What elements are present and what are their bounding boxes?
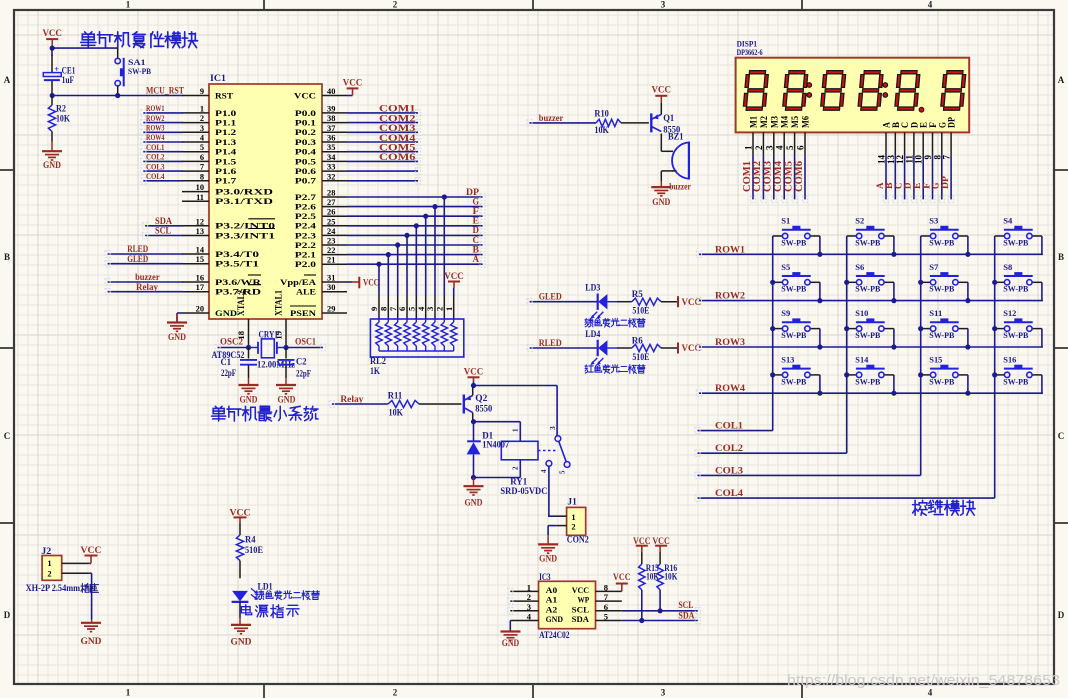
svg-text:BZ1: BZ1 <box>668 131 684 141</box>
svg-text:3: 3 <box>764 145 774 150</box>
net label ROW1 <box>715 244 746 254</box>
pin 4 M4 <box>775 116 790 156</box>
power VCC (GLED) <box>678 296 701 308</box>
wire/net label SDA (P3.2) <box>145 216 183 226</box>
svg-text:P2.1: P2.1 <box>295 251 316 260</box>
switch S1 SW-PB <box>773 216 820 248</box>
switch S3 SW-PB <box>921 216 968 248</box>
svg-text:25: 25 <box>327 217 335 226</box>
svg-text:ROW2: ROW2 <box>146 113 165 123</box>
svg-text:Relay: Relay <box>340 394 364 404</box>
svg-text:2: 2 <box>527 592 531 602</box>
svg-text:S15: S15 <box>929 354 942 364</box>
svg-text:P2.3: P2.3 <box>295 231 316 240</box>
svg-text:P0.1: P0.1 <box>295 119 316 128</box>
svg-text:buzzer: buzzer <box>669 182 691 192</box>
7-segment digit 1 <box>745 72 767 108</box>
svg-text:A: A <box>473 255 480 265</box>
power VCC (RL2 common) <box>444 272 464 319</box>
svg-text:P3.3/INT1: P3.3/INT1 <box>215 231 275 240</box>
wire/net label COM1 (display) <box>742 155 753 199</box>
junction S8/COL4 <box>992 280 997 285</box>
junction DP column <box>442 194 447 199</box>
wire/net label COM3 (P0.2) <box>347 124 418 134</box>
svg-text:COL4: COL4 <box>146 171 165 181</box>
svg-text:F: F <box>473 207 480 217</box>
svg-text:P1.7: P1.7 <box>215 177 236 186</box>
title 电源指示 <box>241 605 299 618</box>
switch S15 SW-PB <box>921 354 968 386</box>
wire/net label COM3 (display) <box>763 155 774 199</box>
pin 34 P0.5 <box>295 153 347 166</box>
svg-text:10K: 10K <box>594 125 609 135</box>
svg-text:SW-PB: SW-PB <box>929 376 954 386</box>
switch S10 SW-PB <box>847 308 894 340</box>
svg-text:VCC: VCC <box>81 546 102 556</box>
svg-text:36: 36 <box>327 134 335 143</box>
pin 2 P1.1 <box>182 114 236 127</box>
wire/net label GLED <box>530 292 598 302</box>
svg-text:AT24C02: AT24C02 <box>539 630 570 640</box>
pin 33 P0.6 <box>295 163 347 176</box>
svg-text:C: C <box>1058 431 1065 441</box>
svg-text:510E: 510E <box>632 306 649 316</box>
wire/net label B (display) <box>885 155 895 199</box>
svg-text:G: G <box>473 197 480 207</box>
svg-text:P2.7: P2.7 <box>295 193 316 202</box>
wire F to RL2 pin 4 <box>416 216 426 319</box>
svg-text:COL2: COL2 <box>146 152 165 162</box>
svg-text:B: B <box>1058 252 1064 262</box>
connector J2 XH-2P <box>41 546 89 580</box>
pin 6 SCL (IC3) <box>572 602 622 615</box>
svg-text:A1: A1 <box>546 595 558 605</box>
switch S5 SW-PB <box>773 262 820 294</box>
svg-text:12: 12 <box>196 217 204 226</box>
svg-text:COM2: COM2 <box>752 161 763 192</box>
svg-text:23: 23 <box>327 237 335 246</box>
pin 14 P3.4/T0 <box>182 246 259 259</box>
svg-text:P3.6/WR: P3.6/WR <box>215 278 262 287</box>
pin 2 M2 <box>754 116 769 156</box>
svg-text:SW-PB: SW-PB <box>855 330 880 340</box>
svg-text:10K: 10K <box>389 407 404 417</box>
svg-text:A2: A2 <box>546 604 558 614</box>
junction D1/coil return <box>471 475 476 480</box>
ground GND (pin 20) <box>167 313 187 343</box>
svg-text:10K: 10K <box>664 572 677 582</box>
pin 8 G (display) <box>932 122 947 160</box>
junction S13/COL1 <box>770 372 775 377</box>
svg-text:P2.0: P2.0 <box>295 260 316 269</box>
svg-text:GND: GND <box>278 396 296 406</box>
svg-text:VCC: VCC <box>572 585 589 595</box>
svg-text:35: 35 <box>327 143 335 152</box>
svg-text:M2: M2 <box>759 116 769 128</box>
transistor Q1 8550 <box>651 113 680 135</box>
junction S10/COL2 <box>844 326 849 331</box>
svg-text:P3.5/T1: P3.5/T1 <box>215 260 259 269</box>
pin 3 P1.2 <box>182 124 236 137</box>
pin 38 P0.1 <box>295 114 347 127</box>
svg-text:SDA: SDA <box>572 614 590 624</box>
wire/net label COM6 (display) <box>794 155 805 199</box>
pin 32 P0.7 <box>295 172 347 185</box>
wire COL3 vertical <box>920 236 922 475</box>
svg-text:SW-PB: SW-PB <box>781 284 806 294</box>
svg-text:VCC: VCC <box>363 278 379 288</box>
svg-text:VCC: VCC <box>343 78 363 88</box>
svg-text:2: 2 <box>512 466 520 470</box>
wire/net label OSC1 <box>286 336 323 347</box>
wire/net label B (P2.1) <box>347 245 483 255</box>
wire/net label G (P2.6) <box>347 197 483 207</box>
svg-text:5: 5 <box>559 470 567 474</box>
svg-text:P1.5: P1.5 <box>215 157 236 166</box>
wire S1 to ROW1 <box>819 236 821 254</box>
svg-text:COM3: COM3 <box>379 124 416 134</box>
pin 1 P1.0 <box>182 104 236 117</box>
svg-text:13: 13 <box>196 227 204 236</box>
svg-text:DP: DP <box>466 188 479 198</box>
wire/net label RLED <box>530 338 598 348</box>
wire R15 to SDA <box>641 590 643 621</box>
junction OSC2 <box>246 345 251 350</box>
svg-text:B: B <box>473 245 480 255</box>
junction S14/ROW4 <box>891 391 896 396</box>
svg-text:SDA: SDA <box>678 610 694 620</box>
pin 26 P2.5 <box>295 208 347 221</box>
display module DISP1 DP3662-6 body <box>736 38 970 132</box>
relay moving contact <box>538 441 566 462</box>
svg-text:P1.4: P1.4 <box>215 148 236 157</box>
svg-text:S3: S3 <box>929 216 938 226</box>
junction S7/ROW2 <box>965 298 970 303</box>
wire A to RL2 pin 9 <box>369 264 379 319</box>
svg-text:10K: 10K <box>56 114 70 124</box>
pin 6 M6 <box>796 116 811 156</box>
svg-text:SW-PB: SW-PB <box>781 330 806 340</box>
wire R6 to VCC <box>661 347 678 349</box>
wire S7 to ROW2 <box>967 282 969 300</box>
svg-text:A0: A0 <box>546 585 558 595</box>
svg-text:1uF: 1uF <box>62 75 75 85</box>
junction collector/D1/coil <box>471 419 476 424</box>
svg-text:GND: GND <box>539 554 557 564</box>
svg-text:COL4: COL4 <box>715 488 744 498</box>
annotation 绿色发光二极管 (LD1) <box>255 591 319 600</box>
wire collector to coil pin 1 <box>474 422 521 442</box>
svg-text:SW-PB: SW-PB <box>1003 237 1028 247</box>
svg-text:XH-2P 2.54mm: XH-2P 2.54mm <box>26 583 81 593</box>
svg-text:1: 1 <box>512 428 520 432</box>
svg-text:COM5: COM5 <box>379 144 416 154</box>
wire COL2 vertical <box>846 236 848 453</box>
wire/net label C (display) <box>894 155 904 199</box>
svg-text:SW-PB: SW-PB <box>1003 376 1028 386</box>
svg-text:S2: S2 <box>855 216 864 226</box>
junction S15/COL3 <box>918 372 923 377</box>
svg-text:P3.4/T0: P3.4/T0 <box>215 250 259 259</box>
svg-text:SW-PB: SW-PB <box>855 237 880 247</box>
wire/net label OSC2 <box>218 336 249 347</box>
wire S14 to ROW4 <box>893 375 895 393</box>
wire DP to RL2 pin 2 <box>435 197 445 319</box>
svg-text:P0.4: P0.4 <box>295 148 316 157</box>
svg-text:SW-PB: SW-PB <box>929 330 954 340</box>
power VCC (reset module) <box>42 29 62 48</box>
pin 20 GND <box>182 305 237 318</box>
wire/net label ROW4 (P1 port) <box>143 132 183 142</box>
7-segment digit 4 <box>860 72 882 108</box>
svg-text:https://blog.csdn.net/weixin_5: https://blog.csdn.net/weixin_54878653 <box>787 673 1060 689</box>
svg-text:C: C <box>4 431 11 441</box>
svg-text:P1.1: P1.1 <box>215 119 236 128</box>
wire/net label SDA (I2C) <box>622 610 698 620</box>
pin 27 P2.6 <box>295 198 347 211</box>
svg-text:GND: GND <box>231 638 252 648</box>
wire S11 to ROW3 <box>967 329 969 347</box>
svg-text:1: 1 <box>126 688 131 698</box>
switch S14 SW-PB <box>847 354 894 386</box>
junction SA1/RST <box>115 93 120 98</box>
resistor network RL2 1K <box>370 319 463 357</box>
net label COL3 <box>715 465 744 475</box>
svg-text:22: 22 <box>327 246 335 255</box>
watermark <box>787 673 1060 689</box>
net label COL1 <box>715 421 744 431</box>
svg-text:38: 38 <box>327 114 335 123</box>
label XH-2P 2.54mm插座 <box>26 583 99 593</box>
wire/net label buzzer (to Q1) <box>529 113 596 123</box>
svg-text:6: 6 <box>796 145 806 150</box>
7-segment digit 3 <box>822 72 844 108</box>
pin 28 P2.7 <box>295 189 347 202</box>
svg-text:COL3: COL3 <box>715 465 744 475</box>
wire E to RL2 pin 5 <box>407 226 417 319</box>
svg-text:DP: DP <box>947 117 957 128</box>
svg-text:1: 1 <box>744 145 754 150</box>
svg-text:2: 2 <box>393 688 398 698</box>
svg-text:LD1: LD1 <box>258 581 273 591</box>
wire P0.6 stub <box>347 170 418 172</box>
svg-text:COM4: COM4 <box>379 134 416 144</box>
svg-text:510E: 510E <box>632 352 649 362</box>
svg-text:SW-PB: SW-PB <box>128 66 151 76</box>
junction S6/ROW2 <box>891 298 896 303</box>
pin 14 A (display) <box>877 122 892 164</box>
wire MCU_RST <box>52 95 183 97</box>
svg-text:GND: GND <box>81 637 102 647</box>
pin 21 P2.0 <box>295 256 347 269</box>
svg-text:J2: J2 <box>41 546 52 556</box>
wire VCC to SA1 <box>52 48 118 58</box>
junction S11/COL3 <box>918 326 923 331</box>
decimal point <box>919 107 924 112</box>
svg-text:S14: S14 <box>855 354 869 364</box>
wire/net label COM1 (P0.0) <box>347 105 418 115</box>
svg-text:S10: S10 <box>855 308 868 318</box>
pin 18 XTAL2 <box>236 290 249 348</box>
svg-text:ROW3: ROW3 <box>715 337 746 347</box>
label RL2 1K <box>370 356 386 376</box>
wire S6 to ROW2 <box>893 282 895 300</box>
resistor R4 510E <box>236 535 263 579</box>
svg-text:7: 7 <box>942 155 952 160</box>
svg-text:IC3: IC3 <box>539 572 551 582</box>
svg-text:M5: M5 <box>790 116 800 128</box>
pin 37 P0.2 <box>295 124 347 137</box>
svg-text:C1: C1 <box>221 357 232 367</box>
svg-text:ALE: ALE <box>296 288 317 297</box>
diode D1 1N4007 <box>467 422 510 478</box>
switch SA1 SW-PB <box>115 57 151 95</box>
svg-text:P0.2: P0.2 <box>295 128 316 137</box>
ground GND (IC3 pin 4) <box>501 621 521 649</box>
relay contact pin 5 <box>559 462 570 474</box>
svg-text:S4: S4 <box>1003 216 1013 226</box>
junction OSC1 <box>283 345 288 350</box>
switch S16 SW-PB <box>995 354 1042 386</box>
svg-text:SW-PB: SW-PB <box>1003 284 1028 294</box>
wire/net label Relay (to Q2) <box>332 394 388 404</box>
wire/net label SCL (P3.3) <box>145 226 183 236</box>
svg-text:A: A <box>1058 75 1065 85</box>
svg-text:S16: S16 <box>1003 354 1017 364</box>
svg-text:P2.4: P2.4 <box>295 222 316 231</box>
junction S16/COL4 <box>992 372 997 377</box>
svg-text:Q1: Q1 <box>663 113 674 123</box>
wire/net label COL1 (P1 port) <box>143 142 183 152</box>
wire S8 to ROW2 <box>1041 282 1043 300</box>
svg-text:16: 16 <box>196 274 204 283</box>
svg-text:9: 9 <box>200 87 204 96</box>
wire/net label Relay (P3.7) <box>108 282 183 292</box>
svg-text:GND: GND <box>168 333 186 343</box>
pin 7 P1.6 <box>182 163 236 176</box>
ground GND (reset) <box>42 142 62 172</box>
junction S5/COL1 <box>770 280 775 285</box>
capacitor CE1 1uF <box>43 48 75 95</box>
pin 4 GND (IC3) <box>510 612 563 625</box>
wire/net label C (P2.2) <box>347 236 483 246</box>
wire S5 to ROW2 <box>819 282 821 300</box>
capacitor C2 22pF <box>278 348 312 379</box>
pin 5 P1.4 <box>182 143 236 156</box>
svg-text:17: 17 <box>196 283 204 292</box>
svg-text:LD3: LD3 <box>585 283 600 293</box>
ground GND (J2) <box>81 620 102 647</box>
svg-text:R4: R4 <box>245 535 256 545</box>
svg-text:COM1: COM1 <box>742 161 753 192</box>
pin 22 P2.1 <box>295 246 347 259</box>
pin 29 PSEN <box>290 305 347 318</box>
svg-text:S9: S9 <box>781 308 790 318</box>
svg-text:GND: GND <box>240 396 258 406</box>
pin 19 XTAL1 <box>274 290 287 348</box>
svg-text:33: 33 <box>327 163 335 172</box>
svg-text:1: 1 <box>200 104 204 113</box>
pin 40 VCC <box>294 87 347 100</box>
svg-text:P0.0: P0.0 <box>295 109 316 118</box>
svg-text:VCC: VCC <box>613 573 631 583</box>
relay RY1 coil <box>501 441 538 460</box>
wire S15 to ROW4 <box>967 375 969 393</box>
pin 3 A2 (IC3) <box>510 602 557 615</box>
pin 39 P0.0 <box>295 104 347 117</box>
wire/net label E (P2.4) <box>347 217 483 227</box>
junction S3/ROW1 <box>965 252 970 257</box>
svg-text:COM1: COM1 <box>379 105 416 115</box>
power VCC (RLED) <box>678 343 701 355</box>
svg-text:RST: RST <box>215 91 234 100</box>
svg-text:10: 10 <box>196 183 204 192</box>
svg-text:IC1: IC1 <box>210 73 227 83</box>
svg-text:S5: S5 <box>781 262 790 272</box>
svg-text:S7: S7 <box>929 262 939 272</box>
svg-text:S11: S11 <box>929 308 942 318</box>
svg-text:DP3662-6: DP3662-6 <box>737 47 764 57</box>
pin 11 P3.1/TXD <box>182 193 273 206</box>
pin 2 A1 (IC3) <box>510 592 557 605</box>
svg-text:1N4007: 1N4007 <box>482 440 509 450</box>
junction S14/COL2 <box>844 372 849 377</box>
svg-text:COL1: COL1 <box>146 142 165 152</box>
wire S9 to ROW3 <box>819 329 821 347</box>
svg-text:GND: GND <box>502 639 520 649</box>
power VCC (Q1 emitter) <box>652 86 672 115</box>
svg-text:24: 24 <box>327 227 336 236</box>
svg-text:ROW1: ROW1 <box>715 244 746 254</box>
svg-text:34: 34 <box>327 153 336 162</box>
svg-text:1: 1 <box>126 0 131 10</box>
svg-text:2: 2 <box>47 569 51 579</box>
pin 5 M5 <box>785 116 800 156</box>
pin 25 P2.4 <box>295 217 347 230</box>
pin 24 P2.3 <box>295 227 347 240</box>
ground GND (buzzer) <box>651 181 671 208</box>
power VCC (Q2 emitter) <box>464 367 484 395</box>
svg-text:RLED: RLED <box>127 244 148 254</box>
svg-text:ROW3: ROW3 <box>146 123 165 133</box>
pin 31 Vpp/EA <box>280 274 347 287</box>
svg-text:510E: 510E <box>245 545 263 555</box>
svg-text:4: 4 <box>775 145 785 150</box>
junction S12/COL4 <box>992 326 997 331</box>
svg-text:COM2: COM2 <box>379 114 416 124</box>
pin 16 P3.6/WR <box>182 274 262 287</box>
switch S11 SW-PB <box>921 308 968 340</box>
svg-text:RL2: RL2 <box>370 356 386 366</box>
svg-text:PSEN: PSEN <box>290 309 316 318</box>
svg-text:SCL: SCL <box>572 604 590 614</box>
svg-text:8: 8 <box>604 582 608 592</box>
resistor R11 10K <box>388 391 462 418</box>
ground GND (C1) <box>239 378 259 406</box>
svg-text:P3.2/INT0: P3.2/INT0 <box>215 222 275 231</box>
svg-text:15: 15 <box>196 255 204 264</box>
resistor R16 10K <box>657 563 678 590</box>
pin 7 DP (display) <box>942 117 957 160</box>
pin 10 E (display) <box>914 122 929 164</box>
power VCC (R16) <box>652 537 670 564</box>
svg-text:buzzer: buzzer <box>539 113 564 123</box>
pin 9 F (display) <box>923 121 938 159</box>
junction at VCC/CE1 <box>50 46 55 51</box>
junction R15/SDA <box>639 618 644 623</box>
pin 13 P3.3/INT1 <box>182 227 275 240</box>
svg-text:VCC: VCC <box>652 86 672 96</box>
